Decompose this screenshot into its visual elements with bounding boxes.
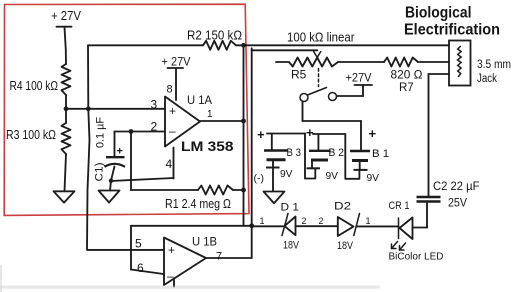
svg-text:+: + [369, 126, 377, 141]
svg-text:B 2: B 2 [329, 147, 345, 159]
svg-text:+: + [169, 104, 176, 118]
svg-text:1: 1 [260, 216, 265, 226]
svg-text:3: 3 [151, 98, 158, 112]
svg-text:BiColor LED: BiColor LED [389, 251, 444, 263]
svg-text:–: – [167, 269, 174, 283]
svg-text:3.5 mm: 3.5 mm [477, 59, 511, 71]
svg-text:U 1A: U 1A [187, 95, 212, 107]
svg-text:18V: 18V [337, 240, 354, 252]
svg-text:2: 2 [302, 216, 307, 226]
svg-text:–: – [169, 124, 176, 138]
svg-text:1: 1 [366, 216, 371, 226]
svg-text:1: 1 [207, 109, 213, 120]
svg-text:5: 5 [135, 237, 142, 251]
svg-text:R5: R5 [291, 68, 307, 82]
svg-text:+ 27V: + 27V [51, 9, 82, 23]
svg-text:R2 150 kΩ: R2 150 kΩ [187, 29, 242, 43]
svg-text:7: 7 [216, 251, 222, 263]
svg-text:(-): (-) [254, 173, 265, 185]
svg-text:+: + [117, 146, 123, 158]
svg-text:U 1B: U 1B [192, 237, 217, 249]
svg-text:+ 27V: + 27V [162, 54, 191, 68]
svg-text:8: 8 [167, 84, 173, 96]
svg-text:0.1 µF: 0.1 µF [95, 117, 107, 148]
svg-text:9V: 9V [326, 170, 339, 182]
svg-text:R7: R7 [399, 82, 414, 94]
svg-text:C1): C1) [94, 163, 106, 182]
svg-text:4: 4 [166, 157, 173, 171]
svg-text:6: 6 [137, 261, 144, 275]
svg-text:9V: 9V [367, 172, 380, 184]
svg-text:B 3: B 3 [287, 147, 302, 159]
svg-text:9V: 9V [280, 168, 293, 180]
svg-text:D 1: D 1 [281, 202, 300, 214]
svg-text:D2: D2 [334, 201, 351, 213]
svg-text:+: + [257, 127, 265, 142]
svg-text:Biological: Biological [405, 4, 472, 21]
svg-text:C2 22 µF: C2 22 µF [433, 179, 480, 193]
svg-text:100 kΩ linear: 100 kΩ linear [287, 31, 355, 45]
svg-text:R4 100 kΩ: R4 100 kΩ [10, 79, 59, 93]
svg-text:25V: 25V [448, 198, 467, 210]
svg-text:2: 2 [319, 216, 324, 226]
svg-text:Jack: Jack [477, 73, 497, 85]
svg-text:R1 2.4 meg Ω: R1 2.4 meg Ω [165, 197, 231, 211]
svg-text:18V: 18V [283, 240, 300, 252]
svg-text:Electrification: Electrification [404, 22, 500, 39]
svg-text:R3 100 kΩ: R3 100 kΩ [6, 128, 56, 142]
svg-text:+: + [168, 243, 175, 257]
svg-text:2: 2 [151, 120, 158, 134]
svg-text:B 1: B 1 [372, 148, 389, 160]
svg-text:820 Ω: 820 Ω [391, 70, 423, 82]
svg-text:CR 1: CR 1 [389, 200, 410, 212]
svg-text:+27V: +27V [346, 71, 372, 85]
svg-text:LM 358: LM 358 [181, 138, 234, 154]
svg-text:+: + [306, 125, 314, 140]
